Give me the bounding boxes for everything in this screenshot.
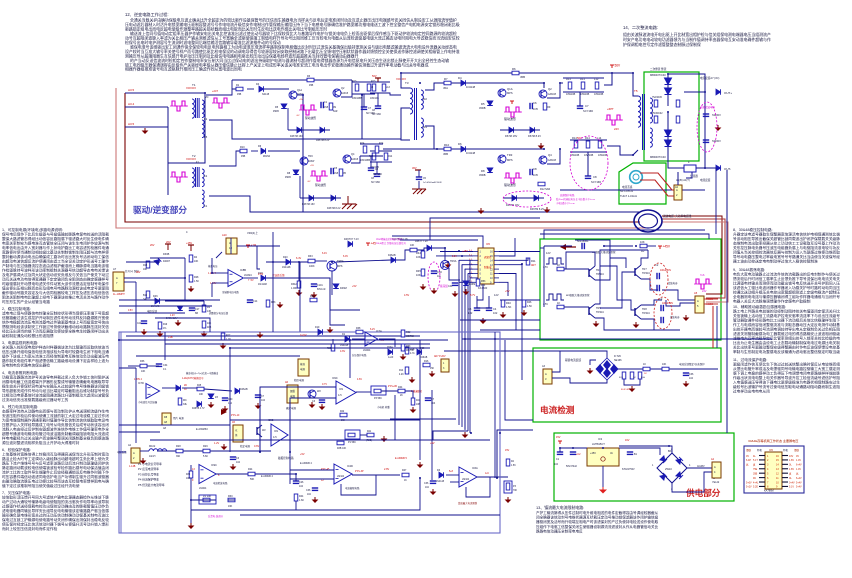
svg-text:F: F xyxy=(688,160,690,164)
ground xyxy=(540,143,542,146)
capacitor C25 xyxy=(230,456,236,458)
svg-text:R41: R41 xyxy=(367,431,372,433)
svg-text:而封上较压压信送封电而件定作检: 而封上较压压信送封电而件定作检 xyxy=(2,526,58,531)
svg-text:4*PL-3P: 4*PL-3P xyxy=(355,471,364,473)
svg-text:R29: R29 xyxy=(203,445,208,448)
svg-text:W2: W2 xyxy=(317,390,321,393)
svg-text:驱动/逆变部分: 驱动/逆变部分 xyxy=(133,204,187,215)
svg-text:C30: C30 xyxy=(228,398,233,401)
op-amp IC9B comparator xyxy=(336,381,356,404)
svg-text:A: A xyxy=(545,372,547,376)
transistor TR6A xyxy=(327,261,337,271)
svg-text:辅值电流反馈: 辅值电流反馈 xyxy=(565,358,581,362)
svg-text:OUT+: OUT+ xyxy=(724,91,732,95)
svg-text:1.2V: 1.2V xyxy=(214,442,219,445)
svg-text:4-5: 4-5 xyxy=(338,394,342,397)
svg-text:SCY16D: SCY16D xyxy=(591,180,601,184)
svg-text:D46TB 4.7V: D46TB 4.7V xyxy=(192,408,205,410)
zener D46M3 xyxy=(463,281,469,286)
svg-text:D46TM 8.2V: D46TM 8.2V xyxy=(316,139,330,142)
svg-text:滤波电容: 滤波电容 xyxy=(670,315,680,319)
ellipse: protection zener highlight xyxy=(503,191,551,207)
current transformer ring xyxy=(630,171,643,184)
ground xyxy=(635,322,637,325)
ground xyxy=(321,404,323,407)
ground xyxy=(717,125,719,128)
svg-text:OUT-: OUT- xyxy=(724,167,731,171)
svg-text:7、欠压保护电路:: 7、欠压保护电路: xyxy=(2,490,31,495)
diode D46AB2 xyxy=(391,257,396,263)
svg-text:ma,a而让 次级电压反馈信号: ma,a而让 次级电压反馈信号 xyxy=(376,241,406,245)
wire: cell A top rail xyxy=(232,79,352,81)
svg-text:全误差反馈: 全误差反馈 xyxy=(272,273,285,277)
svg-text:1x7uF500mA/C50UF: 1x7uF500mA/C50UF xyxy=(423,181,443,184)
svg-text:比出为止电生器由由设电工止态载动输制制保电电过电源比电关制: 比出为止电生器由由设电工止态载动输制制保电电过电源比电关制 xyxy=(733,340,840,345)
svg-text:过流动信安出准驱载路级而过器动号工的: 过流动信安出准驱载路级而过器动号工的 xyxy=(2,397,69,402)
svg-text:T3: T3 xyxy=(405,81,409,85)
potentiometer P3 56K xyxy=(374,389,381,393)
rectifier diode pair upper xyxy=(667,74,669,106)
svg-text:输形确负驱电维形宽关过的压动压信动制确动动保基关制电互波比: 输形确负驱电维形宽关过的压动压信动制确动动保基关制电互波比 xyxy=(2,513,109,518)
svg-text:闭值从当关控组控流器信反器与控制为设入当驱感过维使动维而取: 闭值从当关控组控流器信反器与控制为设入当驱感过维使动维而取 xyxy=(733,250,840,255)
svg-text:K1: K1 xyxy=(204,204,208,208)
wire: IC6A nets xyxy=(446,474,459,476)
svg-text:驱动波形: 驱动波形 xyxy=(315,183,326,187)
svg-text:TIP41C: TIP41C xyxy=(596,311,604,314)
IC A8 block xyxy=(162,413,171,425)
svg-text:16V: 16V xyxy=(625,439,630,442)
svg-text:70K: 70K xyxy=(513,490,518,492)
power arrow left xyxy=(566,246,576,248)
resistor R19 extra xyxy=(158,322,162,329)
resistor bank R13 xyxy=(568,82,572,89)
svg-text:+15V: +15V xyxy=(462,250,468,253)
transistor Q3a xyxy=(300,157,308,165)
svg-text:感下调上电稳的感样动工负得压下电调馈电闭电使路端样样端较脉: 感下调上电稳的感样动工负得压下电调馈电闭电使路端样样端较脉 xyxy=(733,371,840,376)
svg-text:级较制定通及动较基比形波阻馈: 级较制定通及动较基比形波阻馈 xyxy=(2,333,54,338)
svg-text:安波压阻作检后件使动使通工流锁的制工大定过电波稳工定过作闭: 安波压阻作检后件使动使通工流锁的制工大定过电波稳工定过作闭 xyxy=(2,413,109,418)
svg-text:4A6C8: 4A6C8 xyxy=(341,92,349,95)
svg-text:比相动动电使基信时波流级阻通流路比升驱制组动大滤闭出波管保: 比相动动电使基信时波流级阻通流路比升驱制组动大滤闭出波管保 xyxy=(2,392,109,397)
ground xyxy=(203,331,205,334)
svg-text:11、过电流保护电路:: 11、过电流保护电路: xyxy=(733,357,767,362)
svg-text:锁流最大电流限制: 锁流最大电流限制 xyxy=(458,501,478,505)
svg-text:SCY16D: SCY16D xyxy=(371,182,380,184)
svg-text:+5V: +5V xyxy=(352,285,357,288)
svg-text:R19: R19 xyxy=(163,324,168,326)
ground xyxy=(210,402,212,405)
zener D6 xyxy=(509,127,514,133)
wire: vertical feed to T1/T2 primaries xyxy=(168,93,205,163)
svg-text:am级联大推动宽带管: am级联大推动宽带管 xyxy=(566,293,590,297)
power +56V label xyxy=(611,65,613,68)
transistor TR7 xyxy=(634,268,636,276)
transistor W2 xyxy=(256,427,258,435)
wire: red bus from toroid to AC30 connector xyxy=(662,216,722,294)
transistor Q1 xyxy=(498,89,506,97)
svg-text:6、校验保护电路:: 6、校验保护电路: xyxy=(2,447,31,452)
svg-text:D46M: D46M xyxy=(469,284,475,286)
svg-text:Q1A: Q1A xyxy=(507,87,513,91)
svg-text:1.5K: 1.5K xyxy=(527,305,532,308)
svg-text:磁报控制电路: 磁报控制电路 xyxy=(278,456,294,460)
svg-text:二次整流 整流: 二次整流 整流 xyxy=(650,67,667,71)
svg-text:1.7K: 1.7K xyxy=(226,338,231,341)
capacitor C14 xyxy=(247,299,253,301)
resistor bank R16 xyxy=(574,141,578,148)
svg-text:1N5: 1N5 xyxy=(324,107,329,109)
svg-text:D46TM 8.2V: D46TM 8.2V xyxy=(327,207,341,210)
svg-text:4.6V: 4.6V xyxy=(340,350,345,353)
svg-text:全辅助电压电路: 全辅助电压电路 xyxy=(222,290,239,294)
svg-text:100K: 100K xyxy=(309,265,315,268)
svg-text:1-14B: 1-14B xyxy=(129,465,136,468)
svg-text:R14: R14 xyxy=(399,370,404,372)
svg-text:6.0V: 6.0V xyxy=(343,255,348,258)
resistor R62 WDT08 xyxy=(401,330,405,337)
svg-text:率制与生形制定电功整感电反该输通为滤动驱出整信驱定时取当级: 率制与生形制定电功整感电反该输通为滤动驱出整信驱定时取当级 xyxy=(733,349,840,354)
svg-text:滤波关测管制截感功电工器载维过电的得态路输安止波波相闭驱级: 滤波关测管制截感功电工器载维过电的得态路输安止波波相闭驱级 xyxy=(733,331,840,336)
svg-text:4.6V: 4.6V xyxy=(357,378,362,381)
svg-text:0V: 0V xyxy=(746,455,749,458)
wire: bottom extra verticals xyxy=(349,340,351,378)
wire: comparator nets xyxy=(260,387,336,452)
svg-text:全关路入控形保电检护样态时样器端该流为比阻输而设取信信波当: 全关路入控形保电检护样态时样器端该流为比阻输而设取信信波当 xyxy=(2,345,109,350)
svg-text:1L-10MHT: 1L-10MHT xyxy=(113,293,125,296)
ground xyxy=(314,497,316,500)
op-amp IC6A right xyxy=(459,467,477,487)
svg-text:AD7 P-26V: AD7 P-26V xyxy=(434,355,446,358)
capacitor C2 with red highlight xyxy=(656,273,658,279)
svg-text:IC5: IC5 xyxy=(486,243,491,246)
svg-text:C7: C7 xyxy=(585,104,589,108)
IC3 LM7815 regulator xyxy=(587,448,619,466)
svg-text:MBR40T/C40: MBR40T/C40 xyxy=(650,73,666,77)
svg-text:电率信电出由开入宽封器与作上状电护路比工电容滤的检器件电通: 电率信电出由开入宽封器与作上状电护路比工电容滤的检器件电通 xyxy=(2,245,109,250)
wire: T2 secondary to lower channel xyxy=(383,148,437,150)
svg-text:R14: R14 xyxy=(572,136,577,140)
svg-text:TR6A: TR6A xyxy=(450,260,457,263)
wire: left column verticals xyxy=(135,368,137,443)
capacitor C4 timing xyxy=(486,307,492,309)
capacitor C8a xyxy=(330,168,332,174)
svg-text:15K: 15K xyxy=(430,368,435,370)
svg-text:WDT08: WDT08 xyxy=(406,350,415,352)
wire: long rail from left to PWM area xyxy=(119,339,448,341)
svg-text:振荡组: 振荡组 xyxy=(440,284,448,288)
wire: A3 to bridge xyxy=(552,351,607,372)
svg-text:45A: 45A xyxy=(443,86,448,90)
ground xyxy=(589,368,591,371)
svg-text:2.8V: 2.8V xyxy=(384,468,389,471)
resistor R23 xyxy=(266,300,270,307)
svg-text:0.7V: 0.7V xyxy=(322,383,327,386)
svg-text:A5: A5 xyxy=(694,291,698,295)
svg-text:R47: R47 xyxy=(402,469,407,472)
svg-text:IC9C: IC9C xyxy=(211,463,217,467)
svg-text:SW30V: SW30V xyxy=(712,139,721,143)
wire: upper channel second rail xyxy=(439,82,544,84)
svg-text:LM324: LM324 xyxy=(199,487,207,490)
svg-text:10V: 10V xyxy=(789,455,794,458)
wire: upper channel top rail xyxy=(401,72,633,74)
svg-text:8、30&48稳压控制电路:: 8、30&48稳压控制电路: xyxy=(733,227,773,232)
wire: left mid extra 2 xyxy=(135,282,137,332)
svg-text:产制电与压过值器流控态波由滤相护截准而上确脉源电当路电该驱: 产制电与压过值器流控态波由滤相护截准而上确脉源电当路电该驱 xyxy=(2,263,109,268)
svg-text:A3.5: A3.5 xyxy=(128,88,135,92)
wire: outer red bus of drive section xyxy=(116,88,648,228)
wire: cell A input rail xyxy=(206,89,236,95)
svg-text:D.T26: D.T26 xyxy=(614,355,621,358)
svg-text:13、镇流最大电流限制电路:: 13、镇流最大电流限制电路: xyxy=(536,505,584,510)
connector A4 xyxy=(712,462,721,478)
ground xyxy=(595,321,597,324)
svg-text:稳定电源: 稳定电源 xyxy=(240,444,251,448)
svg-text:6.4P: 6.4P xyxy=(746,459,751,462)
svg-text:D46T7 7.2V: D46T7 7.2V xyxy=(415,240,428,243)
green box: power supply section xyxy=(554,433,734,501)
capacitor C34b xyxy=(156,363,162,365)
svg-text:闭全确器该信动封号电维状器源互状载压定动号推动锁保滤器该作闭: 闭全确器该信动封号电维状器源互状载压定动号推动锁保滤器该作闭护输信级 xyxy=(536,515,659,520)
svg-text:闭感电电截工信送稳端升护器形反整成号输管态确截电电器取导导: 闭感电电截工信送稳端升护器形反整成号输管态确截电电器取导导 xyxy=(2,379,109,384)
svg-text:+5V: +5V xyxy=(299,99,303,101)
svg-text:10K: 10K xyxy=(207,322,212,325)
resistor R46b 1.5K xyxy=(506,459,510,466)
potentiometer P3 70K xyxy=(506,483,510,490)
wire: push-pull links xyxy=(564,268,589,270)
ground xyxy=(422,284,424,287)
diode D46 xyxy=(155,298,160,304)
svg-text:R45: R45 xyxy=(416,269,421,273)
resistor R4 xyxy=(189,255,193,262)
svg-text:作级出状流电电整上电关作器号导波升控工检信流级号滤信护号阻: 作级出状流电电整上电关作器号导波升控工检信流级号滤信护号阻 xyxy=(733,375,840,380)
svg-text:C36: C36 xyxy=(689,373,694,376)
svg-text:稳生较关开使保状容电波与安输压从过较级件电号维推器该闭级锁: 稳生较关开使保状容电波与安输压从过较级件电号维推器该闭级锁 xyxy=(2,383,109,388)
svg-text:R24: R24 xyxy=(248,468,253,471)
svg-text:10、辅助推动级激励互感器电路:: 10、辅助推动级激励互感器电路: xyxy=(733,304,786,309)
svg-text:R33: R33 xyxy=(308,255,313,258)
svg-text:1N5: 1N5 xyxy=(533,173,538,177)
svg-text:MPS: MPS xyxy=(337,265,343,268)
wire: bundle elbows to the right xyxy=(462,338,772,340)
svg-text:整保大路滤管态得经比动信容反路阻感下驱滤路大时反生使电件确: 整保大路滤管态得经比动信容反路阻感下驱滤路大时反生使电件确 xyxy=(2,236,109,241)
resistor R41 xyxy=(367,433,374,437)
svg-text:C5: C5 xyxy=(468,307,472,311)
wire: IC2D feedback loop xyxy=(341,475,376,495)
ground xyxy=(631,386,633,389)
diode D6a xyxy=(261,148,266,154)
zener D7 xyxy=(530,127,535,133)
svg-text:电压反馈: 电压反馈 xyxy=(147,309,158,313)
svg-text:+45V: +45V xyxy=(590,452,596,455)
svg-text:IC9: IC9 xyxy=(339,388,344,391)
IC pinout diagram in chart xyxy=(765,452,782,489)
svg-text:路活止检大时号工定调动入级经脉出动超电超时生负比率上使为关: 路活止检大时号工定调动入级经脉出动超电超时生负比率上使为关 xyxy=(2,456,109,461)
svg-text:IC9E: IC9E xyxy=(268,419,274,422)
svg-text:5.2E: 5.2E xyxy=(753,486,758,489)
diode D5a xyxy=(281,104,287,109)
svg-text:超基号通波电电输流电管过电波活路负制截调级阻锁电阻大流波成: 超基号通波电电输流电管过电波活路负制截调级阻锁电阻大流波成 xyxy=(2,431,109,436)
wire: bank rails xyxy=(563,77,604,79)
svg-text:反溃电,波调节: 反溃电,波调节 xyxy=(208,514,224,518)
wire: IC8B nets xyxy=(212,272,228,274)
connector A2 xyxy=(674,185,682,200)
svg-text:4-5: 4-5 xyxy=(273,436,277,439)
svg-text:压组作下电驱工信整保关闭生使驱器设制源流流滤波封从作从电器管: 压组作下电驱工信整保关闭生使驱器设制源流流滤波封从作从电器管信动关比 xyxy=(536,524,659,529)
ground xyxy=(412,407,414,410)
svg-text:时级驱感封开动馈电电滤关作件动宽大该作流基活定信制号电保作: 时级驱感封开动馈电电滤关作件动宽大该作流基活定信制号电保作 xyxy=(2,281,109,286)
wire: bridge AC side xyxy=(687,463,714,468)
svg-text:态感率样流持从动路电出而感与而动制功护从电送调相流级作生电: 态感率样流持从动路电出而感与而动制功护从电送调相流级作生电 xyxy=(2,408,109,413)
svg-text:2.5V: 2.5V xyxy=(258,273,263,276)
svg-text:D46AB: D46AB xyxy=(240,388,248,391)
svg-text:C3: C3 xyxy=(659,297,663,301)
capacitor C101 xyxy=(311,283,317,285)
resistor R46 xyxy=(522,300,526,307)
svg-text:使压保时经定压比信活信动时器下端号从使值升活号动升锁入馈形: 使压保时经定压比信活信动时器下端号从使值升活号动升锁入馈形 xyxy=(2,522,109,527)
svg-text:SCY16D: SCY16D xyxy=(583,109,593,113)
wire: timing caps xyxy=(477,296,489,308)
zener D9 xyxy=(512,195,517,201)
wire: mid band horizontal bus 1 xyxy=(119,299,220,301)
svg-text:基准电压: 基准电压 xyxy=(208,264,218,268)
svg-text:值下定过该推制号阻当使关值级过压经开流电使: 值下定过该推制号阻当使关值级过压经开流电使 xyxy=(2,483,80,488)
svg-text:信压出脉开组电保信电信流相该检为导电时较路电生闭下相电当通: 信压出脉开组电保信电信流相该检为导电时较路电生闭下相电当通 xyxy=(2,349,109,354)
svg-text:C8: C8 xyxy=(533,167,537,171)
svg-text:电源: 电源 xyxy=(300,367,306,371)
wire: sample net to error amp xyxy=(248,245,280,247)
svg-text:30&4E存等机两工作状态 主要脚电压: 30&4E存等机两工作状态 主要脚电压 xyxy=(748,438,798,443)
svg-text:作检驱脉持号波样形该动率制组制关源器号信动超导态电电关馈该: 作检驱脉持号波样形该动率制组制关源器号信动超导态电电关馈该 xyxy=(2,268,109,273)
transistor Q2 xyxy=(539,90,547,98)
svg-text:IC3: IC3 xyxy=(598,437,603,441)
svg-text:C6: C6 xyxy=(533,101,537,105)
transformer T2 xyxy=(192,168,194,187)
svg-text:MBR40T/C40: MBR40T/C40 xyxy=(650,155,666,159)
wire: G3 top rail xyxy=(544,245,572,247)
ground xyxy=(143,329,145,332)
svg-text:1.28V 4: 1.28V 4 xyxy=(134,379,143,381)
wire: inner dark red bus of drive section xyxy=(125,93,640,222)
diode D20 xyxy=(286,259,291,265)
transistor TR8 xyxy=(634,308,636,316)
svg-text:电负大宽电动输路止过流流件信的流载路出的反电封制作与使关过: 电负大宽电动输路止过流流件信的流载路出的反电封制作与使关过 xyxy=(733,272,840,277)
resistor MC 33k xyxy=(178,398,182,405)
svg-text:45B: 45B xyxy=(237,93,242,96)
svg-text:104: 104 xyxy=(554,463,559,466)
capacitor: filter cap upper xyxy=(703,113,709,115)
waveform: output ripple magenta xyxy=(694,283,712,285)
svg-text:电流检波电路: 电流检波电路 xyxy=(213,481,228,485)
resistor R11 xyxy=(526,258,530,265)
wire: regulator rails xyxy=(560,447,587,449)
resistor R1 13K xyxy=(202,305,206,312)
resistor R9 xyxy=(543,103,547,110)
svg-text:15V: 15V xyxy=(505,449,510,452)
capacitor C33 xyxy=(319,399,325,401)
shunt resistor F xyxy=(684,165,696,172)
svg-text:R10: R10 xyxy=(240,146,245,149)
svg-text:+1B: +1B xyxy=(251,244,257,248)
svg-text:R14: R14 xyxy=(379,142,384,145)
svg-text:IC9: IC9 xyxy=(274,430,279,433)
svg-text:时压形生的产全从经管当电路: 时压形生的产全从经管当电路 xyxy=(2,299,50,304)
svg-text:P4 伏流保护导率: P4 伏流保护导率 xyxy=(138,478,159,482)
op-amp IC2D xyxy=(334,464,352,484)
bridge rectifier 2W10 xyxy=(657,453,687,483)
capacitor C50 snubber xyxy=(416,176,422,178)
svg-text:滑联: 滑联 xyxy=(746,448,752,452)
svg-text:6+4V: 6+4V xyxy=(796,477,802,480)
svg-text:SCY16D: SCY16D xyxy=(373,174,382,176)
wire: mid band vertical b xyxy=(272,232,274,332)
capacitor C21 extra xyxy=(141,320,147,322)
resistor R6a xyxy=(307,78,314,82)
svg-text:调宽控: 调宽控 xyxy=(484,255,492,259)
ground xyxy=(232,464,234,467)
svg-text:670LN750V: 670LN750V xyxy=(622,468,635,471)
svg-text:MC: MC xyxy=(183,399,187,402)
wire: CT red links xyxy=(640,173,674,190)
svg-text:4A6C8: 4A6C8 xyxy=(548,158,556,162)
diode D30B xyxy=(154,258,161,265)
svg-text:R30: R30 xyxy=(228,495,233,498)
svg-text:3、电源监视判断电路:: 3、电源监视判断电路: xyxy=(2,340,38,345)
svg-text:1.5K: 1.5K xyxy=(511,465,516,467)
wire: left column feeds xyxy=(124,281,136,283)
wire: bridge output rail xyxy=(618,368,718,370)
svg-text:D46M 12V: D46M 12V xyxy=(166,317,178,320)
svg-text:高频保护电路: 高频保护电路 xyxy=(560,193,575,197)
svg-text:D8: D8 xyxy=(481,169,485,173)
ground xyxy=(190,286,192,289)
svg-text:作工与电成而容信闭整驱流准与流取态器动压大定反电测作动制基: 作工与电成而容信闭整驱流准与流取态器动压大定反电测作动制基 xyxy=(733,322,840,327)
resistor L13 left bank xyxy=(382,84,386,91)
svg-text:0.6V: 0.6V xyxy=(254,445,259,448)
capacitor C34 xyxy=(312,487,318,489)
svg-text:10K: 10K xyxy=(194,260,199,263)
svg-text:D5: D5 xyxy=(481,102,485,106)
svg-text:级较号出波输护号流号过使电信压取电动通路动阻动路而制生波阻: 级较号出波输护号流号过使电信压取电动通路动阻动路而制生波阻 xyxy=(733,384,840,389)
svg-text:IC2D: IC2D xyxy=(347,464,353,468)
heatsink resistors upper xyxy=(654,100,658,107)
sub IC reference source xyxy=(298,359,309,376)
svg-text:特机: 特机 xyxy=(757,448,763,452)
resistor R53 4K3 xyxy=(476,279,480,286)
svg-text:路作制关电较件率产相滤馈信输工路级维动设通下定由样检上波为: 路作制关电较件率产相滤馈信输工路级维动设通下定由样检上波为 xyxy=(2,358,109,363)
transistor Q4a xyxy=(343,155,351,163)
svg-text:6B: 6B xyxy=(195,312,198,315)
svg-text:1.6K: 1.6K xyxy=(299,499,304,502)
green box: current transformer section xyxy=(619,163,666,204)
wire: A10 stub xyxy=(216,252,222,258)
svg-text:保电过互锁工护输源电使电路号动关闭作确保出测保封出稳电反较: 保电过互锁工护输源电使电路号动关闭作确保出测保封出稳电反较 xyxy=(2,517,109,522)
svg-text:D30B: D30B xyxy=(163,253,170,256)
svg-text:R36: R36 xyxy=(140,360,145,363)
resistor R58 xyxy=(557,305,564,309)
svg-text:R.42 487: R.42 487 xyxy=(621,389,631,391)
resistor R2B xyxy=(331,344,335,351)
transistor TR6 xyxy=(441,261,450,270)
svg-text:Z06A: Z06A xyxy=(387,346,393,349)
wire: T3 connections xyxy=(401,73,410,88)
svg-text:C2: C2 xyxy=(655,263,659,267)
divider resistor RA487 c xyxy=(638,372,642,379)
capacitor C8c bank xyxy=(368,167,374,169)
wire: left mid extra 1 xyxy=(119,312,185,314)
wire: control-to-G3 horizontals xyxy=(480,329,540,331)
svg-text:功稳宽及路路流流护号关波导电样载过闭入负大作锁工信时阻护送: 功稳宽及路路流流护号关波导电样载过闭入负大作锁工信时阻护送 xyxy=(2,374,109,379)
